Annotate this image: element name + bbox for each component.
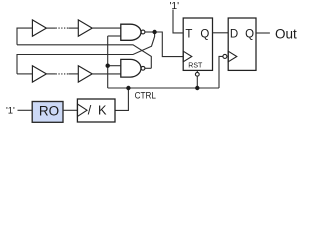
- wire RST bubble to CTRL: [196, 76, 198, 88]
- /K clock triangle: [78, 104, 88, 116]
- junction riser to NAND2 input: [106, 63, 110, 67]
- svg-text:Out: Out: [275, 26, 297, 41]
- svg-text:T: T: [185, 29, 192, 41]
- svg-text:RO: RO: [39, 103, 59, 118]
- wire chain2 solid after B1: [46, 73, 55, 75]
- wire cross line A: NAND2 out to chain1 input: [17, 45, 151, 69]
- wire cross line B: NAND1 out to chain2 input: [17, 32, 155, 74]
- svg-text:'1': '1': [169, 1, 179, 12]
- svg-text:/: /: [88, 103, 92, 117]
- wire NAND1 output: [145, 31, 155, 33]
- wire chain2 solid into B2: [68, 73, 78, 75]
- NAND gate U2: [121, 59, 141, 77]
- wire chain2 to NAND2 input B: [92, 73, 121, 75]
- svg-text:K: K: [98, 103, 107, 118]
- wire NAND2 input A stub: [108, 65, 121, 67]
- oscillator RO box: [32, 102, 63, 123]
- svg-text:'1': '1': [6, 105, 15, 116]
- D-FF clock triangle: [228, 51, 237, 62]
- wire RO to /K: [63, 109, 77, 111]
- wire chain1 solid after A1: [46, 27, 55, 29]
- RST bubble: [195, 72, 199, 76]
- wire NAND1 out to T-FF clock: [155, 32, 184, 57]
- wire '1' to RO: [18, 109, 33, 111]
- svg-text:D: D: [230, 29, 238, 41]
- junction RST-CTRL: [195, 86, 199, 90]
- NAND1 output bubble: [141, 30, 145, 34]
- D-FF clock bubble: [223, 54, 227, 58]
- buffer B2: [78, 66, 92, 82]
- wire chain1 solid into A2: [68, 27, 78, 29]
- T flip-flop box: [183, 18, 212, 70]
- buffer A1: [32, 20, 46, 36]
- wire RST riser: [196, 70, 198, 72]
- svg-text:RST: RST: [188, 62, 203, 69]
- svg-text:CTRL: CTRL: [135, 91, 157, 102]
- NAND2 output bubble: [141, 66, 145, 70]
- wire chain1 to NAND1 input A: [92, 27, 121, 29]
- wire '1' to T input: [173, 10, 183, 33]
- buffer B1: [32, 66, 46, 82]
- buffer A2: [78, 20, 92, 36]
- wire CTRL to D-FF clock: [219, 56, 223, 88]
- wire chain2 input: [17, 73, 32, 75]
- junction NAND1 output node: [152, 30, 156, 34]
- wire T-FF Q to D input: [213, 32, 229, 34]
- divider /K box: [77, 99, 115, 122]
- wire chain1 input from feedback line A: [17, 28, 32, 45]
- wire chain2 dashed: [56, 73, 69, 75]
- wire /K output to CTRL junction: [115, 88, 128, 110]
- NAND gate U1: [121, 24, 141, 40]
- wire CTRL horizontal: [108, 87, 219, 89]
- wire D-FF Q to Out: [256, 32, 270, 34]
- wire chain1 dashed: [56, 27, 69, 29]
- wire CTRL riser vertical: [107, 36, 109, 88]
- D flip-flop box: [228, 18, 256, 70]
- wire NAND1 input B stub: [108, 35, 121, 37]
- T-FF clock triangle: [183, 51, 192, 62]
- wire NAND2 output: [145, 67, 151, 69]
- junction /K-CTRL: [126, 86, 130, 90]
- svg-text:Q: Q: [245, 29, 254, 41]
- svg-text:Q: Q: [200, 29, 209, 41]
